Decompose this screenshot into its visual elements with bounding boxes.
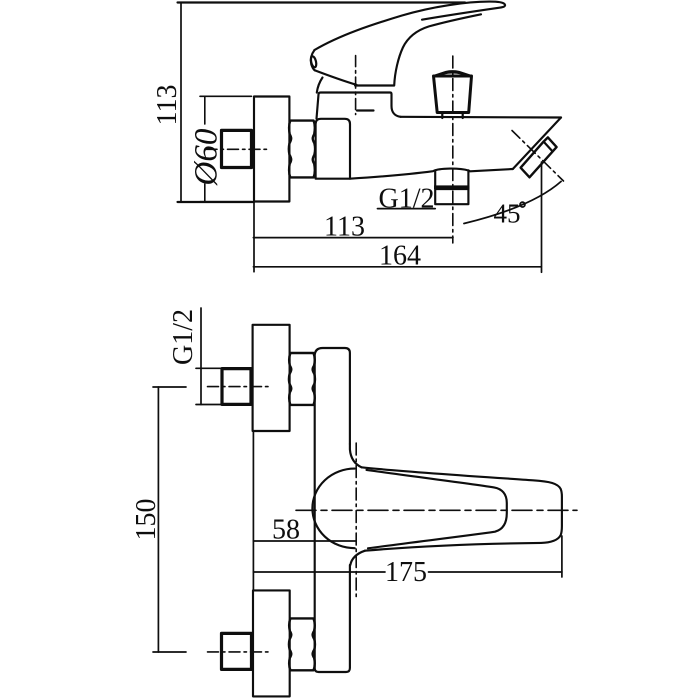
handle underside front edge (315, 70, 357, 85)
150 ticks (153, 386, 186, 388)
spout fillet bottom (plan) (350, 551, 365, 565)
faucet body bar (plan) (315, 348, 350, 672)
svg-text:164: 164 (379, 241, 421, 272)
dimension line 175 left (253, 571, 385, 573)
centerline eccentric (side) (206, 148, 270, 150)
handle cartridge centerline (355, 56, 357, 115)
spout tip diagonal face (513, 118, 561, 170)
handle lever (315, 2, 506, 50)
eccentric connector (side view) (222, 130, 252, 167)
handle neck back curve (394, 14, 481, 85)
svg-text:G1/2: G1/2 (168, 309, 199, 365)
G1/2 leader line (plan) (200, 308, 202, 405)
dimension Ø60 ticks (200, 95, 252, 97)
svg-text:113: 113 (324, 212, 365, 243)
dimension line 113 vertical (180, 3, 182, 203)
handle nose face (311, 50, 315, 70)
dimension line 164 (253, 266, 541, 268)
spout base circle arc (plan) (312, 469, 354, 549)
dimension line 150 (157, 387, 159, 652)
dimension line 113 horizontal (253, 237, 453, 239)
svg-text:45: 45 (494, 198, 521, 228)
escutcheon (side view) (316, 119, 350, 179)
spout top edge (side view) (401, 116, 562, 119)
wall flange lower (plan) (253, 590, 290, 696)
wall flange (side view) (254, 97, 289, 202)
spout vertical centerline (plan) (355, 443, 357, 600)
dimension line 175 right (429, 571, 562, 573)
spout outer contour (plan) (362, 467, 562, 550)
extension line flange bottom to dim (178, 201, 255, 203)
diverter knob cap inner arc (437, 73, 469, 77)
45 degree arc (464, 182, 561, 224)
spout horizontal centerline (plan) (296, 509, 577, 511)
hex nut upper (plan) (289, 353, 315, 405)
extension line 175 right end (561, 536, 563, 577)
diverter knob stem (442, 113, 462, 119)
eccentric connector lower (plan) (222, 633, 252, 669)
dome cap left edge (317, 78, 323, 93)
spout fillet top (plan) (350, 444, 362, 467)
spout bottom edge (side view) (350, 169, 513, 179)
diverter knob (434, 76, 472, 113)
shower outlet band (435, 170, 468, 185)
G1/2 ticks (plan) (196, 367, 222, 369)
extension line top (handle top reference) (178, 1, 466, 3)
svg-text:G1/2: G1/2 (379, 184, 435, 215)
svg-text:113: 113 (152, 85, 183, 126)
aerator axis centerline (512, 131, 564, 182)
degree circle on arc (520, 202, 525, 207)
hex nut lower (plan) (289, 618, 315, 670)
wall extension line (plan) (252, 431, 254, 590)
G1/2 leader underline (378, 208, 436, 210)
svg-text:150: 150 (131, 499, 162, 541)
centerline lower connector (208, 651, 270, 653)
eccentric connector upper (plan) (222, 369, 251, 405)
wall flange upper (plan) (253, 325, 290, 431)
dimension line Ø60 vertical (204, 96, 206, 124)
wall extension line (side view) (253, 97, 255, 272)
handle underside seat line (355, 84, 394, 86)
dimension line 58 (253, 540, 356, 542)
centerline diverter vertical (452, 56, 454, 243)
shower outlet lower nipple (435, 189, 468, 204)
svg-text:175: 175 (385, 557, 427, 588)
hex nut (side view) (289, 121, 315, 178)
cartridge center tick (357, 109, 374, 111)
spout inner contour (plan) (367, 470, 507, 548)
shower outlet heavy ring (434, 185, 470, 189)
handle nose ellipse detail (310, 56, 317, 68)
aerator cap line (544, 142, 553, 151)
diverter knob cap (434, 71, 472, 76)
centerline upper connector (208, 386, 271, 388)
svg-text:58: 58 (272, 515, 300, 546)
svg-text:Ø60: Ø60 (189, 128, 225, 186)
cartridge body (side view) (317, 93, 401, 119)
extension line aerator tip (541, 162, 543, 272)
aerator block (521, 137, 557, 177)
